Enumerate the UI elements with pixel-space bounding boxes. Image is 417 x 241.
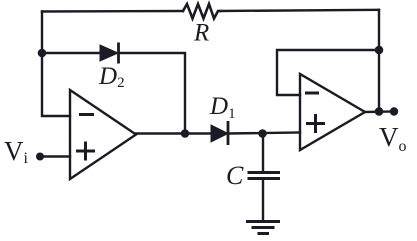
wire node to capacitor xyxy=(262,134,264,172)
diode D1 xyxy=(211,121,228,145)
svg-text:Vi: Vi xyxy=(4,136,29,167)
wire D2 branch left xyxy=(42,52,100,54)
node D junction (feedback / top wire) xyxy=(375,46,384,55)
svg-text:Vo: Vo xyxy=(379,122,407,155)
wire top left horizontal xyxy=(42,10,183,13)
wire D1 cathode to U2 non-inverting input xyxy=(228,133,300,134)
wire right vertical from top to output xyxy=(378,10,380,112)
diode D2 xyxy=(100,43,119,64)
terminal Vo dot xyxy=(390,107,398,115)
terminal Vi dot xyxy=(36,153,44,161)
resistor R xyxy=(183,4,220,19)
svg-text:C: C xyxy=(226,161,244,190)
wire Vi to non-inverting input xyxy=(40,155,70,157)
ground xyxy=(246,222,280,234)
op-amp U1 xyxy=(70,90,136,179)
op-amp U2 xyxy=(300,74,365,150)
wire U1 output to D1 xyxy=(136,132,211,134)
node B junction (U1 output / D2 return) xyxy=(181,129,190,138)
wire U2 output xyxy=(365,110,394,113)
wire D2 cathode to output node xyxy=(119,53,185,134)
node C junction (D1 / capacitor) xyxy=(258,129,267,138)
node E junction (U2 output) xyxy=(375,107,384,116)
svg-text:D1: D1 xyxy=(209,93,236,122)
svg-text:R: R xyxy=(193,20,209,47)
svg-text:D2: D2 xyxy=(98,63,125,91)
node A junction (feedback / D2 branch) xyxy=(38,49,47,58)
capacitor C xyxy=(248,173,281,179)
wire U2 feedback loop xyxy=(277,50,379,95)
wire top right horizontal xyxy=(220,10,379,11)
wire left vertical to inverting input xyxy=(42,12,70,117)
wire capacitor to ground xyxy=(262,180,264,222)
